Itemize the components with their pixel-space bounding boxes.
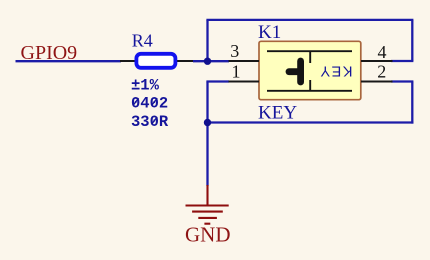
switch symbol: bottom contact line (267, 90, 352, 92)
svg-text:0402: 0402 (131, 94, 168, 112)
wire: pin 1 elbow horizontal (206, 80, 229, 82)
component K1 body box (259, 41, 361, 99)
svg-text:±1%: ±1% (131, 76, 160, 94)
ground bar 2 (192, 211, 223, 213)
svg-text:KEY: KEY (258, 102, 297, 123)
pin 2 line (361, 81, 393, 83)
svg-text:1: 1 (232, 62, 241, 82)
wire: pin 2 stub (391, 80, 413, 82)
svg-text:R4: R4 (132, 31, 153, 51)
pin 4 line (361, 60, 393, 62)
wire: node A up (206, 20, 208, 61)
junction node B (204, 119, 211, 126)
svg-text:330R: 330R (131, 113, 169, 131)
junction node A (204, 58, 211, 65)
switch symbol: top contact post (309, 51, 311, 63)
switch symbol: bottom contact post (309, 80, 311, 91)
resistor R4 pin left (120, 60, 135, 62)
wire: bottom rail (206, 121, 413, 123)
slashed zero mark in 330R (152, 117, 158, 124)
ground bar 3 (198, 217, 217, 219)
pin 3 line (229, 60, 260, 62)
wire: resistor to node A (193, 60, 229, 62)
resistor R4 body (136, 54, 175, 68)
ground bar 4 (204, 223, 210, 225)
svg-text:4: 4 (378, 42, 387, 62)
svg-text:3: 3 (230, 41, 239, 61)
resistor R4 pin right (177, 60, 194, 62)
pin 1 line (229, 81, 260, 83)
wire: top rail (206, 19, 413, 21)
wire: right vertical down to pin 4 (411, 20, 413, 61)
svg-text:K1: K1 (258, 22, 281, 43)
wire: GPIO9 horizontal to resistor (16, 60, 122, 62)
switch symbol: actuator stem (289, 68, 301, 75)
slashed zero marks in 0402 (133, 98, 139, 105)
wire: right vertical pin 2 down (411, 82, 413, 124)
switch symbol: actuator bridge bar (297, 61, 304, 82)
switch symbol: top contact line (267, 50, 352, 52)
svg-text:2: 2 (377, 62, 386, 82)
svg-text:GPIO9: GPIO9 (21, 42, 78, 64)
wire: pin 1 elbow vertical down to node B (206, 82, 208, 123)
ground bar 1 (186, 204, 229, 206)
wire: node B down to ground (206, 123, 208, 187)
wire: pin 4 stub (391, 60, 413, 62)
svg-text:GND: GND (185, 223, 231, 247)
svg-text:KEY: KEY (319, 63, 353, 79)
ground stem (red) (206, 185, 208, 206)
